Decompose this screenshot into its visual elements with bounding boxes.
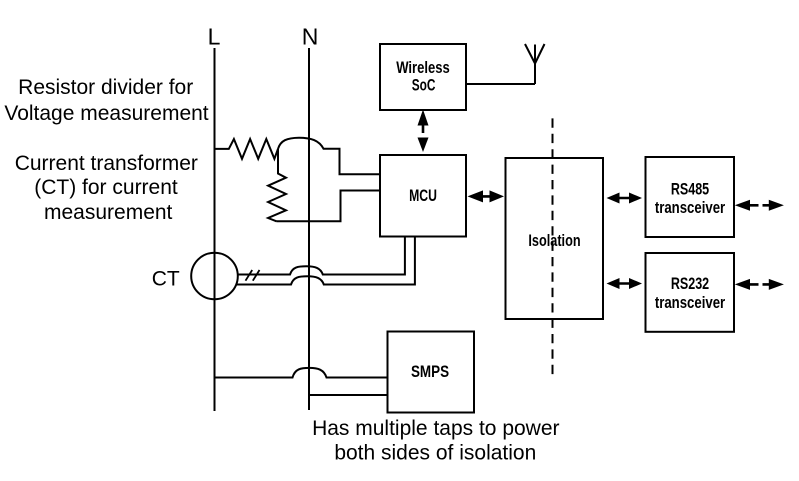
svg-text:Isolation: Isolation (528, 231, 580, 250)
svg-text:L: L (208, 24, 221, 50)
svg-text:N: N (302, 24, 319, 50)
svg-text:RS485: RS485 (671, 179, 709, 198)
wire: Wireless SoC to antenna (466, 83, 535, 85)
svg-text:Current transformer: Current transformer (15, 152, 198, 175)
arrow: Isolation to RS232 (double) (607, 278, 643, 289)
wire: divider bottom to MCU (277, 191, 381, 222)
svg-text:transceiver: transceiver (655, 293, 726, 312)
antenna (525, 44, 545, 84)
block: RS485 transceiver box (646, 157, 735, 237)
wire: N to SMPS (309, 394, 388, 396)
svg-text:Resistor divider for: Resistor divider for (18, 76, 193, 99)
CT secondary slash marks (246, 270, 260, 281)
arrow: MCU to Isolation (double) (468, 190, 505, 202)
isolation boundary (dashed) (552, 118, 554, 378)
svg-text:Wireless: Wireless (396, 58, 450, 77)
svg-text:CT: CT (152, 268, 180, 291)
block: RS232 transceiver box (646, 253, 735, 332)
wire: divider tap over N to MCU pin (hop) (278, 138, 380, 175)
svg-text:MCU: MCU (409, 186, 437, 205)
resistor R2 (vertical, divider bottom) (268, 149, 286, 221)
arrow: RS232 external left (735, 279, 759, 290)
wire: L line (214, 48, 216, 411)
svg-text:RS232: RS232 (671, 274, 709, 293)
arrow: Isolation to RS485 (double) (607, 193, 643, 204)
svg-text:transceiver: transceiver (655, 198, 726, 217)
arrow: RS485 external left (735, 200, 759, 211)
resistor R1 (horizontal, divider top) (215, 139, 279, 159)
arrow: Wireless SoC to MCU (down) (418, 138, 429, 153)
transformer CT (191, 253, 238, 300)
block: SMPS box (388, 332, 475, 413)
arrow: RS232 external right (763, 279, 784, 290)
arrow: RS485 external right (763, 200, 784, 211)
svg-text:both sides of isolation: both sides of isolation (334, 441, 536, 464)
svg-text:SMPS: SMPS (411, 362, 449, 381)
block: Wireless SoC box (380, 44, 466, 110)
arrow: Wireless SoC to MCU (up) (418, 110, 429, 134)
wire: L to SMPS (hop over N) (215, 368, 388, 378)
svg-text:Has multiple taps to power: Has multiple taps to power (312, 417, 559, 440)
block: Isolation box (506, 158, 604, 319)
svg-text:(CT) for current: (CT) for current (34, 176, 178, 199)
wire: N line (308, 48, 310, 410)
wire: CT secondary bottom (hop over N) (236, 237, 415, 285)
svg-text:SoC: SoC (412, 76, 436, 95)
wire: CT secondary top (hop over N) (238, 237, 405, 275)
block: MCU box (380, 155, 466, 237)
svg-text:Voltage measurement: Voltage measurement (4, 102, 208, 125)
svg-text:measurement: measurement (44, 201, 173, 224)
